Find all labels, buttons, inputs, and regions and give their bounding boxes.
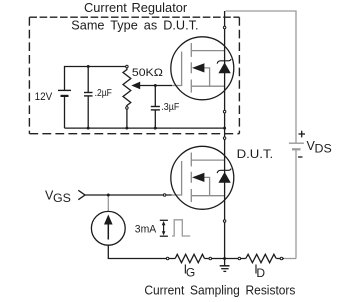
svg-text:.2µF: .2µF	[95, 88, 112, 99]
svg-text:50KΩ: 50KΩ	[132, 67, 163, 79]
svg-text:D.U.T.: D.U.T.	[237, 147, 274, 161]
svg-text:D: D	[256, 266, 265, 280]
svg-text:G: G	[186, 266, 195, 280]
svg-text:Current Regulator: Current Regulator	[84, 1, 187, 15]
svg-text:.3µF: .3µF	[161, 102, 179, 113]
svg-text:3mA: 3mA	[135, 223, 157, 235]
svg-text:Current Sampling Resistors: Current Sampling Resistors	[144, 283, 295, 297]
svg-text:GS: GS	[53, 191, 71, 205]
svg-text:Same Type as D.U.T.: Same Type as D.U.T.	[71, 18, 198, 32]
svg-text:12V: 12V	[35, 91, 53, 103]
svg-text:DS: DS	[315, 141, 332, 155]
